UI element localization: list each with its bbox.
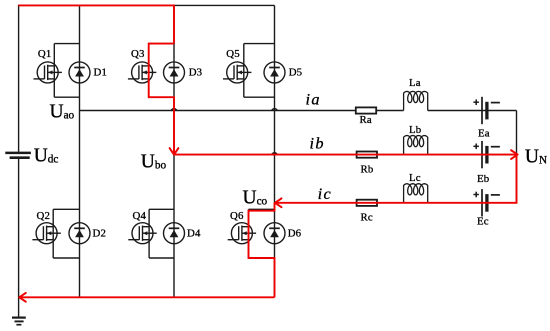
phase leg A vertical	[79, 5, 81, 297]
diode D6	[264, 223, 285, 244]
diode D3	[164, 62, 185, 83]
neutral bus UN vertical	[516, 111, 518, 203]
svg-text:Rc: Rc	[361, 212, 373, 224]
inductor La	[404, 91, 428, 110]
red arrow into node Uco	[275, 198, 281, 207]
red current path: down neutral bus UN	[275, 155, 516, 203]
diode D1	[69, 62, 90, 83]
diode D5	[264, 62, 285, 83]
phase A output wire ia	[80, 110, 404, 112]
top DC bus (positive rail)	[174, 4, 275, 6]
wire hop: ib over leg C	[272, 153, 278, 155]
red arrow back to DC source negative	[19, 293, 25, 302]
svg-text:D4: D4	[187, 227, 201, 239]
ground symbol	[12, 318, 26, 325]
svg-text:Q6: Q6	[230, 210, 244, 222]
resistor Ra	[356, 107, 376, 113]
transistor Q4 (MOSFET)	[128, 209, 174, 258]
svg-text:Lc: Lc	[409, 172, 421, 184]
phase B output wire ib	[174, 154, 404, 156]
transistor Q3 (MOSFET)	[128, 44, 174, 98]
svg-text:Lb: Lb	[409, 124, 421, 136]
red current path: along ib wire to neutral	[174, 154, 517, 156]
left DC source branch wire	[18, 5, 20, 152]
transistor Q6 (MOSFET)	[228, 209, 275, 258]
svg-text:D5: D5	[289, 67, 303, 79]
svg-text:Q1: Q1	[38, 48, 52, 60]
diode D2	[69, 223, 90, 244]
svg-text:La: La	[409, 77, 421, 89]
EMF source Ec (battery cell)	[473, 189, 500, 216]
transistor Q2 (MOSFET)	[32, 209, 79, 258]
svg-text:ic: ic	[318, 184, 333, 203]
EMF source Eb (battery cell)	[473, 141, 500, 168]
svg-text:D6: D6	[288, 227, 302, 239]
wire hop: ia over leg B	[171, 109, 177, 111]
svg-text:ia: ia	[306, 90, 321, 109]
svg-text:Q4: Q4	[133, 210, 147, 222]
phase leg B vertical	[173, 5, 175, 297]
red current path: through transistor Q6	[249, 203, 275, 297]
svg-text:Q5: Q5	[226, 48, 240, 60]
red current path: through transistor Q3	[149, 44, 174, 154]
red arrow into node UN	[511, 150, 517, 159]
phase C output wire ic	[275, 202, 404, 204]
resistor Rc	[357, 200, 377, 206]
resistor Rb	[357, 152, 377, 158]
red current path: top rail from Udc to leg B	[18, 5, 174, 43]
inductor Lc	[404, 184, 428, 203]
bottom DC bus (negative rail)	[19, 296, 275, 298]
wire hop: ia over leg C	[272, 109, 278, 111]
transistor Q5 (MOSFET)	[223, 44, 275, 98]
svg-text:D3: D3	[189, 67, 203, 79]
red arrow into node Ubo	[170, 148, 179, 154]
svg-text:D2: D2	[93, 227, 107, 239]
svg-text:Rb: Rb	[361, 164, 374, 176]
DC source Udc (battery bars)	[5, 153, 31, 158]
phase leg C vertical	[274, 5, 276, 297]
diode D4	[164, 223, 185, 244]
svg-text:Q2: Q2	[37, 210, 51, 222]
svg-text:Ea: Ea	[478, 127, 490, 139]
svg-text:Ec: Ec	[477, 216, 489, 228]
svg-text:Eb: Eb	[477, 173, 489, 185]
svg-text:ib: ib	[310, 134, 325, 153]
svg-text:Q3: Q3	[131, 48, 145, 60]
red current path: bottom rail back to Udc	[20, 296, 275, 298]
transistor Q1 (MOSFET)	[34, 44, 80, 98]
svg-text:D1: D1	[94, 67, 108, 79]
svg-text:Ra: Ra	[360, 114, 372, 126]
inductor Lb	[404, 136, 428, 155]
EMF source Ea (battery cell)	[473, 97, 500, 124]
